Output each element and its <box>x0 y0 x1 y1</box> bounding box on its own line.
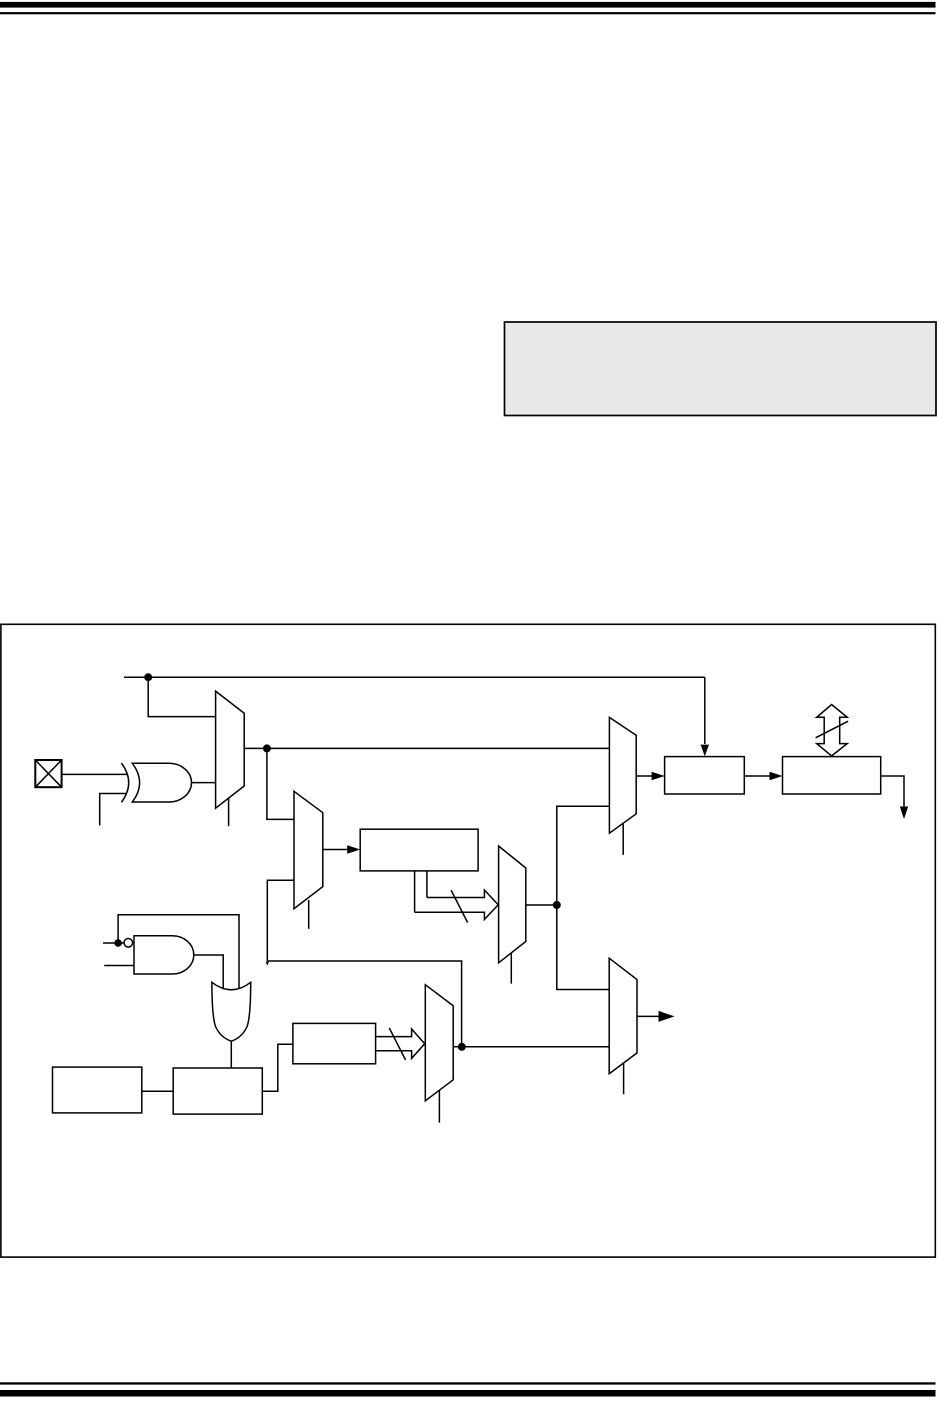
wire NAND bottom input <box>104 965 134 967</box>
register box3 <box>293 1023 376 1063</box>
data bus double arrow <box>817 705 848 756</box>
register sync with internal clocks box <box>665 757 745 794</box>
bus arrow 8 to MUX6 <box>376 1029 425 1058</box>
wire MUX5 select stub <box>623 1064 625 1095</box>
footer thick rule <box>0 1390 936 1397</box>
wire XOR output to MUX1 input 1 <box>192 782 216 784</box>
node MUX3 output junction <box>553 901 561 909</box>
register TMR0 box <box>783 757 881 794</box>
mux MUX6 (WDT prescaler select) <box>425 985 453 1101</box>
wire MUX6 select stub <box>438 1090 440 1122</box>
wire TMR0 overflow out <box>881 776 904 808</box>
wire MUX3 select stub <box>510 953 512 984</box>
wire CLKOUT drop to sync box <box>704 677 706 744</box>
wire WDT to postscaler <box>142 1090 173 1092</box>
pin T0CKI <box>35 760 61 787</box>
xor gate G1 (T0SE edge select) <box>121 763 191 802</box>
bus arrow 8 to MUX3 <box>415 890 499 920</box>
wire NAND top input <box>103 942 124 944</box>
wire MUX1 output to MUX4 input 0 <box>244 747 609 749</box>
wire T0CKI pin to XOR <box>61 773 126 775</box>
header thick rule <box>0 2 936 8</box>
wire junction up to MUX4 input 1 <box>557 806 610 905</box>
mux MUX1 (T0CS) <box>216 691 245 808</box>
register watchdog timer box <box>53 1067 142 1113</box>
wire CLKOUT (Fosc/4) horizontal <box>124 676 705 678</box>
node CLKOUT junction <box>144 673 152 681</box>
figure frame <box>1 624 935 1257</box>
wire T0SE select input <box>100 794 126 826</box>
wire postscaler to box3 <box>262 1044 293 1091</box>
wire MUX6 output to MUX5 input 1 <box>453 1046 609 1048</box>
node NAND input junction <box>114 939 122 947</box>
register WDT postscaler box <box>173 1068 262 1114</box>
footer thin rule <box>0 1382 936 1384</box>
wire MUX3 output <box>526 904 557 906</box>
wire sync to TMR0 arrow <box>744 772 782 781</box>
wire MUX2 output arrow to prescaler <box>323 845 360 854</box>
nand gate G2 (WDT enable) <box>124 936 194 974</box>
wire MUX5 output arrow (WDT time-out) <box>637 1011 675 1022</box>
mux MUX3 (PSout tap) <box>499 846 526 963</box>
note box (shaded) <box>505 322 937 416</box>
wire MUX2 select stub <box>308 900 310 929</box>
bus slash 8 <box>389 1028 405 1060</box>
node MUX1 output junction <box>263 744 271 752</box>
mux MUX5 (PSA WDT select) <box>609 958 637 1073</box>
wire prescaler output feedback to MUX2 input 1 <box>267 880 461 1047</box>
wire MUX1 select stub <box>228 798 230 827</box>
bus slash 8 <box>451 890 468 922</box>
wire junction to MUX1 input 0 <box>148 677 215 716</box>
register 8-bit prescaler box <box>360 829 478 871</box>
wire small arrow tick at corner <box>266 962 269 966</box>
wire junction down to MUX2 input 0 <box>267 748 294 819</box>
wire MUX4 output arrow to sync <box>636 772 664 781</box>
data bus slash <box>816 721 849 738</box>
mux MUX2 (PSA prescaler input) <box>294 791 323 908</box>
mux MUX4 (PSA timer select) <box>609 717 636 833</box>
header thin rule <box>0 12 936 14</box>
wire feedback from junction to OR input <box>118 915 239 989</box>
node MUX6 output junction <box>458 1043 466 1051</box>
wire CLKOUT arrowhead into sync box <box>701 745 709 757</box>
wire OR output to WDT counter <box>230 1041 232 1068</box>
wire overflow arrowhead <box>900 807 908 820</box>
wire junction down to MUX5 input 0 <box>557 905 609 990</box>
wire MUX4 select stub <box>622 824 624 855</box>
wire prescaler outputs down <box>415 871 427 912</box>
or gate G3 (vertical) <box>212 982 251 1041</box>
wire NAND output to OR input <box>194 955 223 989</box>
